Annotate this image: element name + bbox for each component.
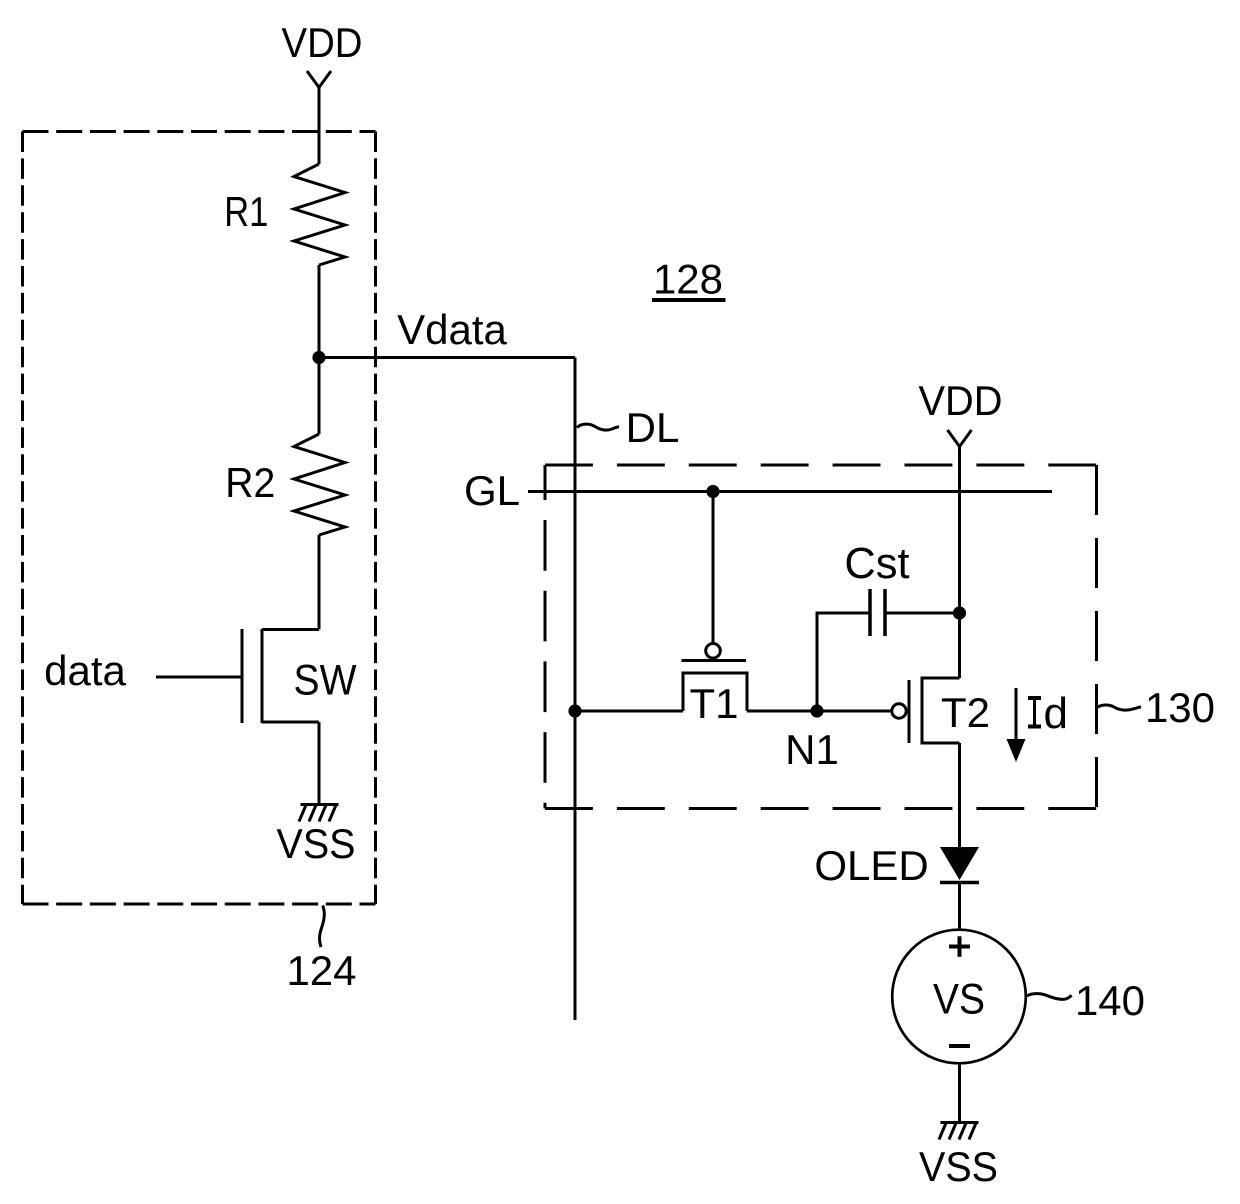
label Id bbox=[1028, 689, 1068, 738]
plus sign bbox=[949, 936, 970, 957]
svg-text:Cst: Cst bbox=[844, 540, 909, 588]
wire GL to T1 gate bubble bbox=[712, 492, 715, 644]
transistor T1 gate bubble bbox=[706, 644, 721, 659]
svg-text:T2: T2 bbox=[941, 689, 990, 736]
wire data to SW gate bbox=[156, 676, 242, 679]
squiggle connector to DL label bbox=[577, 424, 619, 430]
wire T1 drain to N1 bbox=[747, 710, 817, 713]
wire node A to R2 bbox=[318, 358, 321, 435]
resistor R1 bbox=[294, 164, 345, 265]
wire N1 to T2 gate bubble bbox=[817, 710, 892, 713]
squiggle connector to 130 label bbox=[1097, 705, 1141, 710]
svg-text:124: 124 bbox=[286, 947, 356, 994]
transistor T1 bbox=[682, 661, 748, 712]
node on GL (T1 gate junction) bbox=[706, 485, 719, 498]
svg-text:GL: GL bbox=[464, 467, 520, 514]
node DL-T1 junction bbox=[568, 704, 581, 717]
wire SW source down to ground bbox=[318, 722, 321, 804]
svg-text:SW: SW bbox=[294, 658, 357, 705]
transistor SW bbox=[242, 629, 319, 723]
svg-text:OLED: OLED bbox=[814, 842, 928, 889]
svg-text:Vdata: Vdata bbox=[397, 306, 507, 353]
wire DL to T1 source bbox=[575, 710, 683, 713]
ground VSS (bottom) bbox=[939, 1123, 979, 1140]
diode OLED bbox=[940, 847, 979, 883]
power VDD antenna symbol (right) bbox=[948, 430, 972, 447]
resistor R2 bbox=[294, 434, 345, 535]
power VDD antenna symbol (top left) bbox=[307, 71, 331, 88]
svg-text:VSS: VSS bbox=[919, 1143, 998, 1190]
ground VSS (left) bbox=[299, 805, 339, 822]
squiggle connector to 140 label bbox=[1027, 994, 1072, 1000]
svg-text:VSS: VSS bbox=[277, 820, 356, 867]
transistor T2 gate bubble bbox=[892, 704, 906, 718]
wire VS to ground bbox=[958, 1064, 961, 1123]
svg-text:DL: DL bbox=[626, 404, 680, 451]
wire OLED to VS bbox=[958, 883, 961, 931]
gate line GL wire bbox=[528, 490, 1052, 493]
data line DL vertical wire bbox=[574, 358, 577, 1021]
svg-text:VDD: VDD bbox=[282, 19, 363, 66]
svg-text:R1: R1 bbox=[224, 188, 268, 235]
wire R2 to SW drain bbox=[318, 535, 321, 630]
minus sign bbox=[949, 1044, 970, 1048]
node Cst-VDD junction bbox=[953, 606, 966, 619]
driver block 124 dashed box bbox=[23, 132, 376, 905]
node N1 bbox=[810, 704, 823, 717]
wire R1 to node A bbox=[318, 265, 321, 358]
svg-text:d: d bbox=[1044, 689, 1068, 738]
svg-text:140: 140 bbox=[1075, 977, 1145, 1024]
svg-text:T1: T1 bbox=[689, 680, 738, 727]
wire N1 up to Cst left plate bbox=[817, 613, 870, 711]
current arrow Id bbox=[1007, 688, 1026, 762]
svg-text:R2: R2 bbox=[225, 459, 275, 506]
wire Vdata horizontal bbox=[319, 356, 575, 359]
squiggle connector to 124 label bbox=[320, 906, 325, 948]
voltage source VS circle bbox=[892, 930, 1026, 1064]
svg-text:128: 128 bbox=[653, 256, 723, 303]
capacitor Cst bbox=[870, 589, 885, 636]
svg-text:VS: VS bbox=[933, 976, 985, 1024]
wire T2 drain to OLED bbox=[958, 743, 961, 847]
node A (Vdata junction) bbox=[312, 351, 325, 364]
pixel block 130 dashed box bbox=[545, 465, 1097, 809]
svg-text:data: data bbox=[44, 647, 126, 694]
VDD wire down to T2 source bbox=[958, 447, 961, 679]
wire Cst right plate to VDD line bbox=[885, 612, 960, 615]
transistor T2 bbox=[909, 678, 960, 743]
svg-text:130: 130 bbox=[1145, 684, 1215, 731]
wire VDD antenna to R1 bbox=[318, 88, 321, 165]
svg-text:VDD: VDD bbox=[919, 377, 1003, 424]
svg-text:N1: N1 bbox=[785, 726, 839, 773]
